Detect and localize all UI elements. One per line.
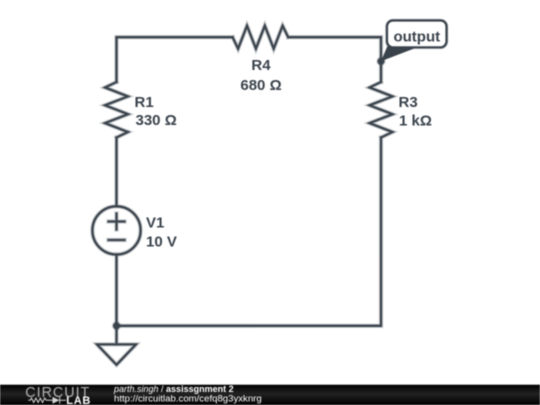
svg-text:680 Ω: 680 Ω [240, 77, 281, 94]
svg-text:output: output [393, 29, 440, 46]
svg-text:http://circuitlab.com/cefq8g3y: http://circuitlab.com/cefq8g3yxknrg [114, 393, 262, 404]
svg-text:R1: R1 [135, 94, 154, 111]
svg-text:LAB: LAB [66, 395, 91, 405]
svg-text:10 V: 10 V [146, 234, 177, 251]
svg-text:R4: R4 [251, 57, 271, 74]
svg-text:1 kΩ: 1 kΩ [399, 112, 432, 129]
svg-text:330 Ω: 330 Ω [136, 112, 177, 129]
svg-text:V1: V1 [146, 214, 164, 231]
svg-text:R3: R3 [399, 94, 418, 111]
